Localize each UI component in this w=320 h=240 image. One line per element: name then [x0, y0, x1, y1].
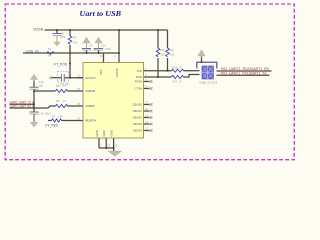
svg-text:100n: 100n: [45, 111, 51, 115]
svg-text:USB_IN: USB_IN: [26, 49, 40, 53]
svg-text:C12: C12: [39, 80, 44, 84]
svg-text:Uart to USB: Uart to USB: [80, 11, 122, 18]
svg-text:PA1_UART1_TX/USART1_TX: PA1_UART1_TX/USART1_TX: [221, 71, 267, 75]
svg-text:1k5: 1k5: [161, 53, 166, 57]
svg-text:17: 17: [78, 74, 81, 78]
svg-text:CBUS0: CBUS0: [132, 103, 142, 107]
svg-text:R9: R9: [170, 48, 174, 52]
svg-text:4u7: 4u7: [93, 47, 98, 51]
svg-text:RTS#: RTS#: [135, 80, 143, 84]
svg-text:VCC: VCC: [99, 69, 103, 75]
svg-text:R5: R5: [56, 84, 60, 88]
svg-text:RESET#: RESET#: [85, 119, 96, 123]
svg-text:16: 16: [77, 87, 80, 91]
svg-text:CBUS1: CBUS1: [132, 109, 142, 113]
svg-text:27: 27: [179, 66, 182, 70]
svg-text:3V3OUT: 3V3OUT: [85, 76, 96, 80]
svg-text:R7: R7: [52, 115, 56, 119]
svg-text:18: 18: [107, 144, 110, 148]
svg-text:19: 19: [77, 116, 80, 120]
svg-text:FT_POS: FT_POS: [54, 62, 68, 66]
svg-text:100n: 100n: [105, 47, 111, 51]
svg-text:21: 21: [115, 144, 118, 148]
svg-text:10k: 10k: [170, 53, 175, 57]
svg-text:0R: 0R: [48, 54, 51, 58]
svg-text:CBUS4: CBUS4: [132, 129, 142, 133]
svg-text:22: 22: [145, 107, 148, 111]
svg-text:C10: C10: [101, 44, 106, 48]
svg-text:VCCIO: VCCIO: [115, 67, 119, 77]
svg-text:R8: R8: [161, 48, 165, 52]
svg-text:USBDP: USBDP: [85, 104, 95, 108]
svg-text:27: 27: [63, 84, 66, 88]
svg-text:GND: GND: [102, 130, 106, 136]
svg-text:FT_RES: FT_RES: [46, 124, 59, 128]
svg-text:10n: 10n: [39, 84, 44, 88]
svg-text:R4: R4: [73, 36, 77, 40]
svg-text:12: 12: [145, 127, 148, 131]
svg-text:100n: 100n: [60, 35, 66, 39]
svg-text:USBLC6-2SC6: USBLC6-2SC6: [199, 81, 218, 85]
svg-text:20: 20: [100, 54, 103, 58]
svg-text:C13: C13: [39, 111, 44, 115]
svg-text:RXD: RXD: [136, 75, 142, 79]
svg-text:23: 23: [145, 101, 148, 105]
svg-text:10k: 10k: [58, 115, 63, 119]
svg-text:27: 27: [63, 99, 66, 103]
svg-text:10k: 10k: [73, 41, 78, 45]
svg-text:15: 15: [77, 102, 80, 106]
svg-text:UART2_UART_RX_B: UART2_UART_RX_B: [10, 104, 35, 108]
svg-text:CTS#: CTS#: [135, 87, 143, 91]
svg-text:14: 14: [145, 120, 148, 124]
svg-text:GND: GND: [95, 130, 99, 136]
svg-text:R1: R1: [48, 47, 52, 51]
svg-text:CBUS2: CBUS2: [132, 116, 142, 120]
svg-text:GND: GND: [110, 130, 114, 136]
svg-text:TXD: TXD: [136, 69, 142, 73]
svg-text:R10: R10: [173, 66, 178, 70]
svg-text:R11: R11: [173, 80, 178, 84]
svg-text:R6: R6: [56, 99, 60, 103]
svg-text:C9: C9: [89, 44, 93, 48]
svg-text:27: 27: [179, 80, 182, 84]
svg-text:13: 13: [145, 114, 148, 118]
svg-text:VUSB: VUSB: [33, 27, 44, 31]
svg-text:USBDM: USBDM: [85, 89, 96, 93]
svg-text:CBUS3: CBUS3: [132, 122, 142, 126]
